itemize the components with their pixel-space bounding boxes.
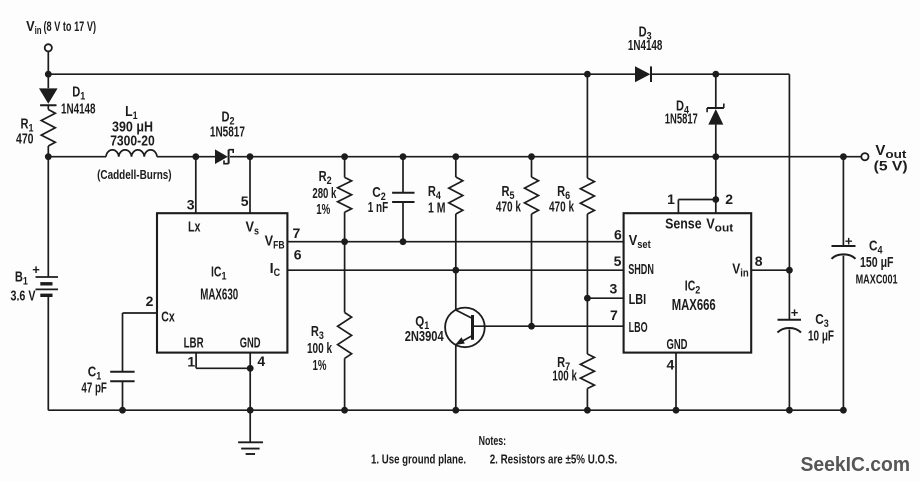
- wire bottom rail: [48, 409, 843, 411]
- svg-text:6: 6: [294, 247, 302, 263]
- svg-text:470: 470: [16, 132, 34, 148]
- svg-text:8: 8: [755, 253, 763, 269]
- wire Vout rail to C4: [842, 157, 844, 246]
- junction dot pin1/pin4 join: [247, 365, 254, 372]
- wire mid rail to R4: [455, 157, 457, 177]
- capacitor C3 10uF: [778, 319, 802, 321]
- capacitor C2 1nF: [392, 192, 414, 194]
- wire mid rail to R2: [344, 157, 346, 178]
- junction dot pin8/right rail: [786, 267, 793, 274]
- junction dot mid rail / pin3 stub: [192, 153, 199, 160]
- wire C1 to bottom rail: [122, 381, 124, 410]
- resistor R1 470: [41, 110, 55, 147]
- wire LBI node to R7: [586, 298, 588, 354]
- wire R5 to LBO net: [531, 214, 533, 326]
- wire top rail left segment (Vin to D3 anode): [48, 73, 635, 75]
- junction dot Vout rail / C4: [840, 153, 847, 160]
- junction dot D4/Vout rail: [712, 153, 719, 160]
- svg-text:7300-20: 7300-20: [110, 133, 155, 149]
- svg-text:Cx: Cx: [161, 310, 175, 326]
- svg-text:GND: GND: [667, 337, 688, 353]
- svg-text:1N5817: 1N5817: [210, 125, 245, 141]
- junction dot top rail / D4 branch: [712, 71, 719, 78]
- junction dot Q1 emitter/bottom rail: [452, 407, 459, 414]
- junction dot R7/bottom rail: [584, 407, 591, 414]
- resistor R6 470k: [580, 178, 594, 214]
- junction dot R5/LBO net: [528, 323, 535, 330]
- svg-text:1: 1: [667, 191, 675, 207]
- svg-text:MAX666: MAX666: [672, 297, 716, 314]
- wire IC1 pin 3 stub (Lx): [195, 157, 197, 214]
- wire top rail to D4 cathode: [715, 74, 717, 108]
- junction dot R6/R7/LBI: [584, 295, 591, 302]
- svg-text:1: 1: [187, 354, 195, 370]
- junction dot R3/bottom rail: [341, 407, 348, 414]
- wire pin4 node to bottom rail: [249, 368, 251, 410]
- svg-text:100 k: 100 k: [307, 341, 333, 357]
- svg-text:(5 V): (5 V): [874, 159, 908, 174]
- wire IC2 pin3 LBI stub: [587, 297, 623, 299]
- junction dot IC1 ground / bottom rail: [247, 407, 254, 414]
- wire IC2 pin1 Sense stub: [677, 200, 679, 214]
- diode D1 1N4148: [47, 74, 49, 88]
- junction dot IC2 GND/bottom rail: [673, 407, 680, 414]
- wire VFB net (IC1 pin7 to IC2 pin6 Vset): [287, 241, 623, 243]
- wire IC1 pin 5 stub (Vs): [249, 157, 251, 214]
- op-amp/IC U1 MAX630 box: [157, 213, 287, 352]
- junction dot Vin/top rail: [45, 71, 52, 78]
- svg-text:+: +: [845, 234, 853, 249]
- svg-text:47 pF: 47 pF: [81, 380, 107, 396]
- svg-text:Lx: Lx: [188, 220, 201, 236]
- junction dot top rail / R6 branch: [584, 71, 591, 78]
- diode D2 1N5817: [215, 149, 228, 164]
- resistor R7 100k: [580, 354, 594, 389]
- svg-text:LBO: LBO: [629, 320, 648, 336]
- svg-text:1N4148: 1N4148: [628, 38, 663, 54]
- wire top rail right segment (D3 cathode to right corner): [652, 73, 790, 75]
- svg-text:4: 4: [667, 357, 675, 373]
- svg-text:1N4148: 1N4148: [61, 101, 96, 117]
- junction dot pin1/pin2 join: [712, 196, 719, 203]
- svg-text:2: 2: [725, 191, 733, 207]
- wire R4 to shutdown net: [455, 214, 457, 270]
- svg-text:1 nF: 1 nF: [368, 200, 389, 216]
- wire IC2 pin8 Vin to right rail: [751, 269, 789, 271]
- junction dot mid rail / R2: [341, 153, 348, 160]
- wire R2 to VFB node: [344, 212, 346, 242]
- junction dot R4/Q1 collector/shutdown net: [452, 267, 459, 274]
- wire mid rail: L1 to D2 anode: [157, 156, 215, 158]
- resistor R5 470k: [525, 177, 539, 214]
- svg-text:LBI: LBI: [629, 292, 647, 308]
- junction dot mid rail / R5: [528, 153, 535, 160]
- svg-text:2N3904: 2N3904: [405, 329, 445, 345]
- wire mid rail: D2 cathode to Vout terminal: [230, 156, 861, 158]
- junction dot C4/bottom rail: [840, 407, 847, 414]
- svg-text:7: 7: [293, 225, 301, 241]
- transistor Q1 2N3904: [445, 308, 485, 348]
- junction dot mid rail / pin5 stub: [247, 153, 254, 160]
- wire C4 to bottom rail: [842, 256, 844, 410]
- op-amp/IC U2 MAX666 box: [624, 213, 752, 352]
- svg-text:5: 5: [614, 253, 622, 269]
- svg-text:+: +: [32, 262, 40, 277]
- node Vout output terminal: [861, 153, 868, 160]
- wire Vin terminal to top rail: [47, 51, 49, 74]
- svg-text:2. Resistors are ±5% U.O.S.: 2. Resistors are ±5% U.O.S.: [490, 452, 618, 467]
- wire IC1 pin4 GND stub: [249, 353, 251, 369]
- svg-text:470 k: 470 k: [496, 200, 522, 216]
- wire IC1 pin1 LBR stub: [195, 353, 197, 369]
- wire right rail (top rail corner down to C3): [788, 74, 790, 320]
- junction dot mid rail / R4: [452, 153, 459, 160]
- svg-text:4: 4: [257, 353, 265, 369]
- node Vin input terminal: [45, 44, 52, 51]
- inductor L1 390uH 7300-20: [106, 150, 157, 157]
- diode D4 1N5817: [707, 107, 724, 109]
- svg-text:MAXC001: MAXC001: [856, 271, 898, 286]
- wire Q1 emitter to bottom rail: [455, 345, 457, 410]
- wire battery - to bottom rail: [47, 295, 49, 410]
- wire shutdown net (IC1 pin6 IC to IC2 pin5 SHDN): [287, 269, 623, 271]
- svg-text:100 k: 100 k: [552, 368, 577, 384]
- svg-text:Sense: Sense: [665, 216, 702, 232]
- svg-text:MAX630: MAX630: [200, 286, 238, 303]
- wire C2 to VFB net: [402, 202, 404, 242]
- wire IC2 pin4 GND to bottom rail: [675, 353, 677, 411]
- junction dot C1/bottom rail: [119, 407, 126, 414]
- ground: [249, 410, 251, 442]
- wire D4 anode to Vout rail: [715, 125, 717, 157]
- resistor R2 280k 1%: [338, 177, 352, 212]
- svg-text:5: 5: [241, 193, 249, 209]
- wire IC2 pin2 Vout stub: [715, 157, 717, 214]
- wire mid rail to R5: [531, 157, 533, 177]
- capacitor C4 150uF MAXC001: [832, 245, 856, 247]
- junction dot mid rail / C2: [400, 153, 407, 160]
- svg-text:1 M: 1 M: [428, 201, 446, 217]
- wire R7 to bottom rail: [586, 389, 588, 411]
- svg-text:LBR: LBR: [184, 335, 204, 351]
- svg-text:150 μF: 150 μF: [860, 255, 894, 271]
- diode D3 1N4148: [635, 66, 650, 82]
- wire top rail to R6: [586, 74, 588, 178]
- wire R3 to bottom rail: [344, 358, 346, 410]
- junction dot C3/bottom rail: [786, 407, 793, 414]
- wire Q1 base to LBO net: [473, 325, 624, 327]
- svg-text:6: 6: [614, 227, 622, 243]
- svg-text:3.6 V: 3.6 V: [11, 289, 36, 305]
- wire mid rail to C2: [402, 157, 404, 193]
- wire mid rail: battery node to L1: [48, 156, 106, 158]
- junction dot R2/R3/VFB: [341, 238, 348, 245]
- wire IC1 pin2 Cx to C1: [123, 312, 158, 314]
- battery B1 3.6 V: [36, 276, 59, 278]
- svg-text:+: +: [791, 305, 799, 320]
- svg-text:280 k: 280 k: [312, 186, 336, 202]
- resistor R3 100k 1%: [338, 313, 352, 359]
- resistor R4 1M: [449, 177, 463, 214]
- svg-text:SHDN: SHDN: [628, 262, 654, 278]
- svg-text:1. Use ground plane.: 1. Use ground plane.: [371, 451, 466, 466]
- svg-text:GND: GND: [240, 335, 261, 351]
- svg-text:470 k: 470 k: [549, 200, 575, 216]
- svg-text:3: 3: [610, 281, 618, 297]
- svg-text:10 μF: 10 μF: [808, 328, 834, 344]
- svg-text:1%: 1%: [316, 202, 330, 218]
- svg-text:Notes:: Notes:: [479, 433, 507, 448]
- wire R1 to mid node: [47, 146, 49, 157]
- svg-text:SeekIC.com: SeekIC.com: [801, 453, 911, 476]
- wire Q1 collector: [455, 270, 457, 310]
- svg-text:2: 2: [146, 293, 154, 309]
- wire VFB node to R3: [344, 242, 346, 313]
- wire R6 to LBI node: [586, 214, 588, 298]
- svg-text:(Caddell-Burns): (Caddell-Burns): [97, 167, 172, 182]
- svg-text:3: 3: [187, 196, 195, 212]
- junction dot C2/VFB: [400, 238, 407, 245]
- svg-text:7: 7: [610, 307, 618, 323]
- wire mid node down to battery +: [47, 157, 49, 277]
- svg-text:(8 V to 17 V): (8 V to 17 V): [44, 19, 97, 34]
- svg-text:1%: 1%: [313, 358, 327, 374]
- capacitor C1 47pF: [110, 371, 134, 373]
- wire C3 to bottom rail: [788, 330, 790, 411]
- svg-text:1N5817: 1N5817: [665, 112, 698, 128]
- junction dot R1/battery/mid rail: [45, 153, 52, 160]
